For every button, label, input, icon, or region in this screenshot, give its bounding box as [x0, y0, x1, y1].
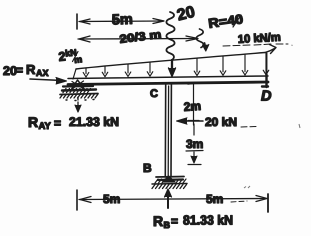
- svg-text:C: C: [150, 88, 158, 100]
- svg-text:2m: 2m: [183, 99, 201, 114]
- dimension 5m top line: [77, 14, 164, 29]
- svg-text:D: D: [261, 89, 272, 105]
- left ordinate: [73, 69, 76, 79]
- dimension 3m: [188, 124, 201, 165]
- svg-text:20: 20: [3, 64, 17, 78]
- support B hatching row 1: [155, 179, 186, 183]
- resultant force 20 arrow (bold): [169, 60, 176, 77]
- support A hatching row 1: [62, 86, 96, 93]
- svg-text:=: =: [54, 116, 61, 130]
- svg-text:3m: 3m: [186, 137, 203, 151]
- dimension 2m: [188, 83, 202, 126]
- svg-text:81.33 kN: 81.33 kN: [183, 213, 233, 228]
- svg-text:R=40: R=40: [207, 11, 244, 31]
- label 20=RAx: [3, 62, 49, 78]
- svg-text:AY: AY: [39, 121, 52, 132]
- svg-text:B: B: [143, 161, 152, 175]
- svg-text:20: 20: [175, 4, 196, 25]
- pin support A triangle: [71, 80, 85, 90]
- load line end arrow: [265, 45, 276, 54]
- vertical member BC: [165, 84, 171, 177]
- svg-text:B: B: [164, 220, 171, 230]
- support A hatching row 2: [60, 94, 98, 101]
- right ordinate at D: [266, 53, 268, 75]
- svg-text:R: R: [26, 62, 36, 77]
- support B hatching row 2: [152, 184, 187, 189]
- reaction RAy dashed down arrow: [75, 97, 81, 112]
- svg-text:5m: 5m: [206, 192, 223, 206]
- svg-text:=: =: [16, 63, 23, 77]
- svg-text:=: =: [171, 214, 178, 228]
- support B pin triangle: [163, 176, 176, 182]
- svg-text:10 kN/m: 10 kN/m: [238, 32, 282, 46]
- beam top chord: [68, 76, 268, 79]
- svg-text:21.33 kN: 21.33 kN: [69, 115, 119, 129]
- svg-text:5m: 5m: [112, 12, 134, 29]
- load line (top of trapezoidal load): [76, 53, 265, 70]
- squiggle leader at 20/3 resultant: [196, 29, 203, 48]
- reaction RAx arrow: [30, 78, 67, 85]
- svg-text:AX: AX: [36, 68, 49, 78]
- beam bottom chord (thick): [68, 82, 268, 85]
- svg-text:m: m: [74, 54, 83, 65]
- bottom dimension line: [77, 190, 268, 212]
- squiggle leader at 5m resultant: [166, 12, 174, 60]
- beam right end cap: [262, 75, 268, 88]
- label RB = 81.33 kN: [153, 213, 233, 231]
- support B base: [156, 177, 184, 181]
- svg-text:R: R: [153, 213, 163, 229]
- label RAy = 21.33 kN: [28, 114, 119, 132]
- distributed load arrows: [83, 52, 269, 77]
- resultant R=40 mini arrow: [203, 43, 209, 51]
- svg-text:R: R: [28, 114, 38, 130]
- svg-text:5m: 5m: [103, 192, 120, 206]
- dimension 20/3 m line: [78, 36, 198, 42]
- force 20 kN arrow: [177, 118, 204, 124]
- svg-text:20/3 m: 20/3 m: [119, 29, 162, 46]
- reaction RB up arrow: [165, 189, 172, 208]
- svg-text:20 kN: 20 kN: [205, 115, 237, 129]
